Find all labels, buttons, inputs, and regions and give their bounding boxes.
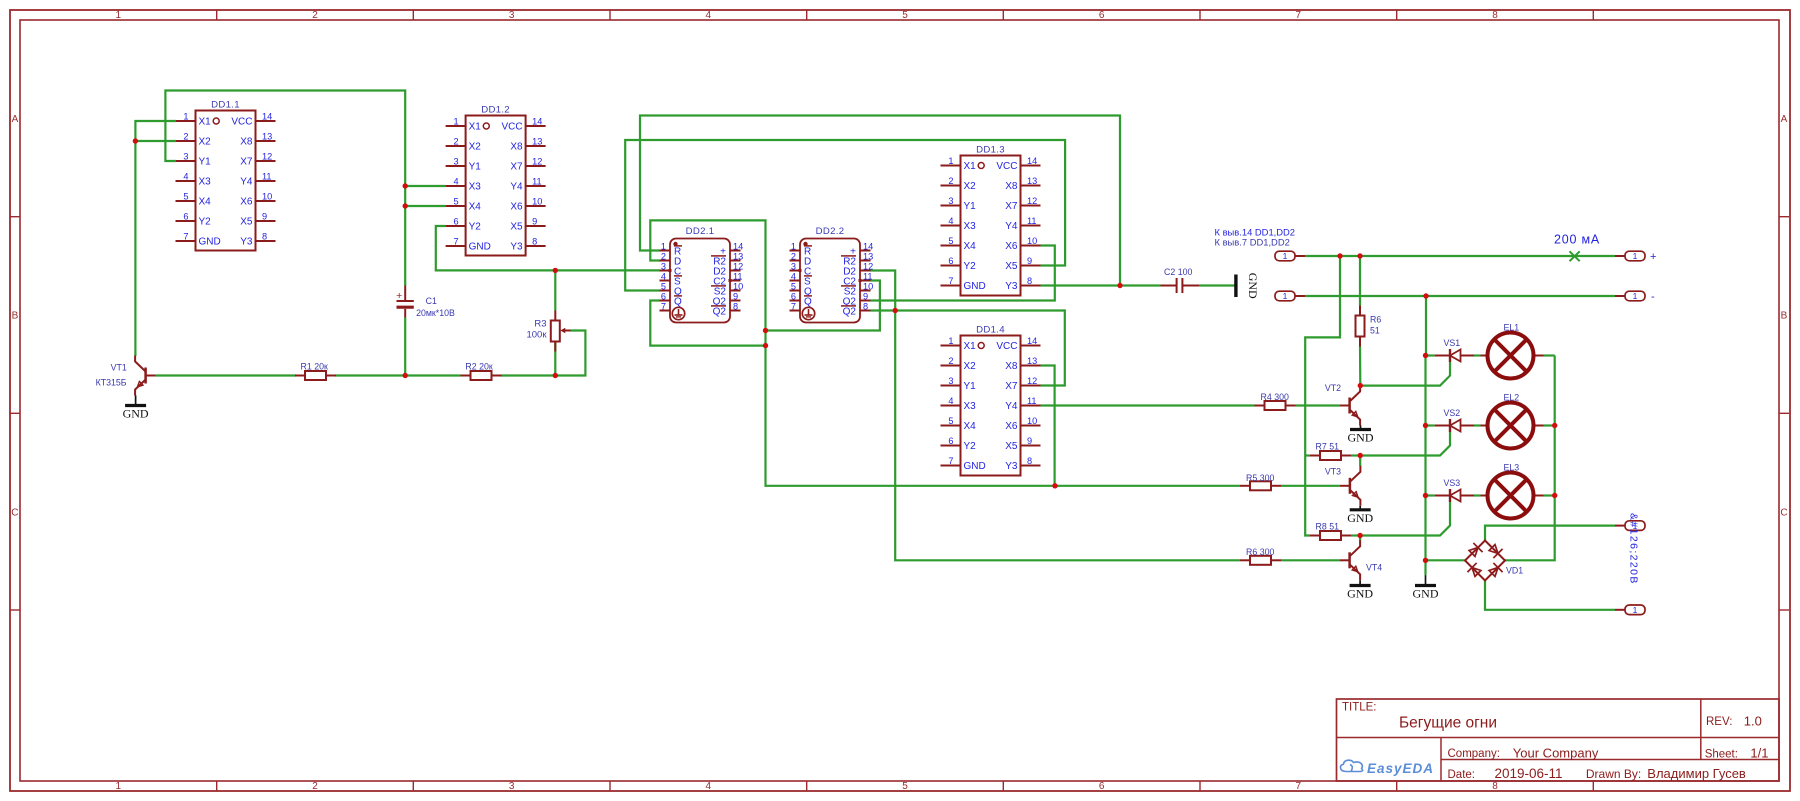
svg-text:VD1: VD1 — [1506, 565, 1523, 575]
junction (1554.7,495.5) — [1552, 493, 1557, 498]
svg-text:GND: GND — [1347, 511, 1373, 525]
wire DD1.4 pin13 to net — [1041, 366, 1055, 486]
svg-text:КТ315Б: КТ315Б — [96, 378, 127, 388]
svg-text:C: C — [1780, 507, 1787, 518]
svg-text:GND: GND — [964, 281, 986, 292]
svg-text:Y3: Y3 — [240, 237, 253, 248]
svg-text:Владимир Гусев: Владимир Гусев — [1647, 766, 1746, 781]
svg-text:X4: X4 — [964, 241, 977, 252]
svg-text:5: 5 — [902, 781, 908, 792]
svg-text:7: 7 — [791, 302, 796, 312]
svg-text:X3: X3 — [964, 401, 977, 412]
svg-text:6: 6 — [1099, 10, 1105, 21]
svg-text:13: 13 — [1027, 356, 1037, 366]
wire VT3 collector stub — [1359, 456, 1361, 467]
svg-text:Y1: Y1 — [199, 157, 212, 168]
svg-text:R8 51: R8 51 — [1316, 522, 1340, 532]
wire R7 tap — [1305, 454, 1310, 456]
wire R4 to VT2 base — [1296, 404, 1340, 406]
svg-text:R3: R3 — [534, 319, 546, 330]
svg-text:7: 7 — [1296, 10, 1302, 21]
svg-text:4: 4 — [791, 272, 796, 282]
wire DD1.1 pin3 to C1 top — [165, 91, 405, 286]
IC DD2.1 — [660, 226, 744, 323]
svg-text:R7 51: R7 51 — [1316, 442, 1340, 452]
svg-text:X1: X1 — [199, 117, 212, 128]
wire DD2.2 pin9 to DD1.3 pin10 — [871, 246, 1055, 301]
wire bridge left — [1426, 559, 1466, 561]
svg-text:Q: Q — [804, 297, 812, 308]
svg-text:-: - — [1651, 291, 1655, 303]
svg-text:A: A — [12, 114, 19, 125]
wire DD1.1 pin2 to node — [135, 140, 176, 142]
junction (405.2,186) — [403, 183, 408, 188]
svg-text:Drawn By:: Drawn By: — [1586, 767, 1641, 781]
svg-text:14: 14 — [863, 242, 873, 252]
lamp EL2 — [1481, 393, 1544, 449]
svg-text:VCC: VCC — [996, 341, 1017, 352]
svg-text:GND: GND — [469, 242, 491, 253]
svg-text:200 мА: 200 мА — [1554, 233, 1600, 247]
svg-text:14: 14 — [1027, 156, 1037, 166]
svg-text:4: 4 — [948, 216, 953, 226]
svg-text:Y3: Y3 — [1005, 461, 1018, 472]
svg-text:13: 13 — [733, 252, 743, 262]
junction (765.5,330.5) — [763, 328, 768, 333]
svg-text:X2: X2 — [469, 142, 482, 153]
svg-text:1: 1 — [1283, 291, 1288, 301]
svg-text:DD1.2: DD1.2 — [481, 105, 510, 116]
svg-text:X4: X4 — [964, 421, 977, 432]
svg-text:X5: X5 — [240, 217, 253, 228]
wire VT1 base to R1 — [156, 374, 296, 376]
resistor R7 51 — [1310, 442, 1351, 460]
svg-text:Y3: Y3 — [510, 242, 523, 253]
junction (1425.5,355.5) — [1423, 353, 1428, 358]
svg-text:1: 1 — [1283, 251, 1288, 261]
svg-text:1: 1 — [661, 242, 666, 252]
svg-text:DD1.3: DD1.3 — [976, 145, 1005, 156]
junction (1360,256) — [1357, 253, 1362, 258]
wire VS-EL row 425.5 — [1474, 424, 1481, 426]
svg-text:4: 4 — [453, 177, 458, 187]
svg-text:X3: X3 — [469, 182, 482, 193]
svg-text:20мк*10В: 20мк*10В — [416, 308, 455, 318]
svg-text:9: 9 — [1027, 436, 1032, 446]
svg-text:7: 7 — [183, 232, 188, 242]
capacitor C1 — [396, 286, 455, 318]
svg-text:10: 10 — [1027, 416, 1037, 426]
svg-text:GND: GND — [123, 407, 149, 421]
svg-text:DD1.1: DD1.1 — [211, 100, 240, 111]
svg-text:4: 4 — [183, 172, 188, 182]
svg-text:EasyEDA: EasyEDA — [1367, 761, 1434, 776]
IC DD1.1 — [176, 100, 276, 251]
svg-text:4: 4 — [948, 396, 953, 406]
svg-text:13: 13 — [262, 132, 272, 142]
svg-text:+: + — [1650, 251, 1656, 263]
svg-text:13: 13 — [863, 252, 873, 262]
svg-text:3: 3 — [791, 262, 796, 272]
svg-text:Y2: Y2 — [199, 217, 212, 228]
svg-text:2: 2 — [948, 356, 953, 366]
svg-text:14: 14 — [532, 117, 542, 127]
svg-text:DD2.2: DD2.2 — [816, 226, 845, 237]
wire EL-bus row 425.5 — [1544, 424, 1555, 426]
svg-text:X5: X5 — [510, 222, 523, 233]
svg-text:12: 12 — [532, 157, 542, 167]
svg-text:6: 6 — [453, 217, 458, 227]
connector pad P3 + right — [1615, 251, 1645, 261]
current probe X — [1570, 251, 1580, 261]
title block — [1337, 699, 1780, 781]
svg-text:X8: X8 — [1005, 181, 1018, 192]
IC DD1.3 — [941, 145, 1041, 296]
thyristor VS2 — [1435, 408, 1474, 432]
svg-text:8: 8 — [733, 302, 738, 312]
junction (1360.2,455.5) — [1358, 453, 1363, 458]
svg-text:Y4: Y4 — [1005, 221, 1018, 232]
svg-text:REV:: REV: — [1706, 716, 1732, 728]
svg-text:EL2: EL2 — [1504, 393, 1520, 403]
svg-text:A: A — [1781, 114, 1788, 125]
wire bridge bottom to pad — [1485, 581, 1615, 610]
svg-text:3: 3 — [948, 196, 953, 206]
svg-text:VCC: VCC — [996, 161, 1017, 172]
wire VT4 collector stub — [1359, 536, 1361, 541]
svg-text:R5 300: R5 300 — [1246, 473, 1274, 483]
svg-text:R1 20к: R1 20к — [301, 361, 328, 371]
lamp EL3 — [1481, 463, 1544, 519]
svg-text:X7: X7 — [510, 162, 523, 173]
svg-text:1: 1 — [116, 781, 122, 792]
svg-text:К выв.7 DD1,DD2: К выв.7 DD1,DD2 — [1215, 236, 1290, 247]
junction (1425.5,560.3) — [1423, 558, 1428, 563]
svg-text:VCC: VCC — [501, 122, 522, 133]
svg-text:DD1.4: DD1.4 — [976, 325, 1005, 336]
junction (1426,296) — [1423, 293, 1428, 298]
svg-text:VS2: VS2 — [1444, 408, 1461, 418]
svg-text:3: 3 — [661, 262, 666, 272]
svg-text:Q: Q — [674, 297, 682, 308]
junction (1055,485.8) — [1052, 483, 1057, 488]
svg-text:6: 6 — [661, 292, 666, 302]
svg-text:7: 7 — [661, 302, 666, 312]
svg-text:11: 11 — [1027, 216, 1037, 226]
svg-text:10: 10 — [262, 192, 272, 202]
svg-text:1.0: 1.0 — [1744, 714, 1762, 729]
svg-text:X7: X7 — [1005, 201, 1018, 212]
svg-text:X5: X5 — [1005, 261, 1018, 272]
svg-text:11: 11 — [1027, 396, 1037, 406]
svg-text:6: 6 — [948, 256, 953, 266]
svg-text:3: 3 — [453, 157, 458, 167]
svg-text:X3: X3 — [199, 177, 212, 188]
thyristor VS1 — [1435, 338, 1474, 362]
wire VS row 355.5 — [1426, 354, 1435, 356]
svg-text:C: C — [11, 507, 18, 518]
svg-text:5: 5 — [948, 416, 953, 426]
junction (1425.5,425.5) — [1423, 423, 1428, 428]
svg-text:Y1: Y1 — [469, 162, 482, 173]
svg-text:9: 9 — [532, 217, 537, 227]
junction (1360.3,385.6) — [1358, 383, 1363, 388]
svg-text:1: 1 — [1633, 251, 1638, 261]
svg-text:51: 51 — [1370, 325, 1380, 335]
svg-text:EL3: EL3 — [1504, 463, 1520, 473]
svg-text:5: 5 — [791, 282, 796, 292]
svg-text:5: 5 — [902, 10, 908, 21]
svg-text:8: 8 — [1027, 456, 1032, 466]
svg-text:C2 100: C2 100 — [1164, 267, 1192, 277]
ground VT2 — [1348, 426, 1374, 445]
svg-text:X8: X8 — [240, 137, 253, 148]
svg-text:7: 7 — [948, 276, 953, 286]
svg-text:Y4: Y4 — [1005, 401, 1018, 412]
svg-text:X5: X5 — [1005, 441, 1018, 452]
junction (405.2,375.5) — [403, 373, 408, 378]
svg-text:1: 1 — [1633, 291, 1638, 301]
svg-text:9: 9 — [1027, 256, 1032, 266]
wire R6 51 to VT2 collector — [1359, 346, 1362, 386]
resistor R6 300 — [1240, 547, 1281, 565]
junction (895.2,310.5) — [893, 308, 898, 313]
svg-text:Q2: Q2 — [713, 307, 727, 318]
IC DD2.2 — [790, 226, 874, 323]
svg-text:R4 300: R4 300 — [1261, 392, 1289, 402]
svg-text:R2 20к: R2 20к — [465, 361, 492, 371]
svg-text:7: 7 — [1296, 781, 1302, 792]
junction (1340,256) — [1337, 253, 1342, 258]
junction (1360.1,535.5) — [1357, 533, 1362, 538]
svg-text:GND: GND — [1347, 587, 1373, 601]
connector pad P1 + left — [1275, 251, 1305, 261]
svg-text:Y2: Y2 — [469, 222, 482, 233]
wire R5 to VT3 base — [1281, 485, 1340, 487]
svg-text:Your Company: Your Company — [1513, 745, 1599, 760]
resistor R1 — [295, 361, 336, 380]
svg-text:2: 2 — [661, 252, 666, 262]
svg-text:1: 1 — [948, 156, 953, 166]
junction (555.3,270.4) — [553, 268, 558, 273]
svg-text:GND: GND — [964, 461, 986, 472]
wire DD2.1 pin1 net — [640, 116, 1120, 286]
lamp EL1 — [1481, 323, 1544, 379]
wire VS3 gate — [1360, 502, 1450, 536]
wire node to DD1.2 pin4 — [405, 185, 445, 187]
resistor R3 (rheostat) — [526, 311, 570, 352]
wire VS row 425.5 — [1426, 424, 1435, 426]
svg-text:1: 1 — [453, 117, 458, 127]
resistor R6 51 — [1356, 306, 1382, 347]
svg-text:3: 3 — [509, 10, 515, 21]
svg-text:3: 3 — [948, 376, 953, 386]
svg-text:4: 4 — [706, 10, 712, 21]
wire DD2.2 pin11 to loop — [766, 281, 880, 331]
svg-text:Q2: Q2 — [843, 307, 857, 318]
svg-text:B: B — [1781, 311, 1788, 322]
junction (1120,285.5) — [1117, 283, 1122, 288]
connector pad P2 - left — [1275, 291, 1305, 301]
svg-text:X2: X2 — [964, 361, 977, 372]
svg-text:X6: X6 — [240, 197, 253, 208]
svg-text:Sheet:: Sheet: — [1705, 749, 1738, 761]
junction (135.4,141) — [133, 138, 138, 143]
svg-text:DD2.1: DD2.1 — [686, 226, 715, 237]
connector pad P5 AC top — [1615, 521, 1645, 531]
wire DD1.3 pin8 to C2 — [1041, 284, 1161, 286]
svg-text:8: 8 — [1492, 781, 1498, 792]
junction (1425.5,495.5) — [1423, 493, 1428, 498]
svg-text:6: 6 — [1099, 781, 1105, 792]
svg-text:TITLE:: TITLE: — [1342, 702, 1377, 714]
svg-text:Бегущие огни: Бегущие огни — [1399, 714, 1497, 731]
svg-text:VCC: VCC — [231, 117, 252, 128]
svg-text:Date:: Date: — [1448, 769, 1476, 781]
svg-text:VT1: VT1 — [111, 363, 127, 373]
svg-text:8: 8 — [1027, 276, 1032, 286]
svg-text:Y1: Y1 — [964, 201, 977, 212]
ground VT4 — [1347, 580, 1373, 600]
wire R7 to VT3 collector node — [1351, 454, 1360, 456]
IC DD1.4 — [941, 325, 1041, 476]
svg-text:R6 300: R6 300 — [1246, 547, 1274, 557]
transistor VT3 — [1325, 466, 1361, 506]
wire VS1 gate — [1360, 362, 1450, 386]
wire R2 to node — [501, 374, 556, 376]
svg-text:5: 5 — [453, 197, 458, 207]
svg-text:&#126;220В: &#126;220В — [1628, 513, 1640, 585]
wire node to DD1.2 pin5 — [405, 205, 445, 207]
svg-text:EL1: EL1 — [1504, 323, 1520, 333]
svg-text:3: 3 — [509, 781, 515, 792]
svg-text:10: 10 — [863, 282, 873, 292]
wire DD2.2 pin12 to R6 300 — [871, 271, 1241, 561]
svg-text:6: 6 — [183, 212, 188, 222]
wire EL-bus row 355.5 — [1544, 354, 1555, 356]
ground near VD1 — [1413, 575, 1439, 601]
wire DD2.2 pin8 to DD1.4 pin12 — [871, 311, 1065, 386]
svg-text:8: 8 — [863, 302, 868, 312]
wire C2 to GND — [1199, 284, 1236, 286]
svg-text:6: 6 — [791, 292, 796, 302]
svg-text:5: 5 — [183, 192, 188, 202]
wire VS row 495.5 — [1426, 494, 1435, 496]
svg-text:8: 8 — [262, 232, 267, 242]
svg-text:VS3: VS3 — [1444, 478, 1461, 488]
svg-text:2: 2 — [791, 252, 796, 262]
wire DD2.1 pin5 to DD1.3 pin9 — [625, 140, 1065, 291]
capacitor C2 — [1161, 267, 1200, 293]
svg-text:Y3: Y3 — [1005, 281, 1018, 292]
svg-text:14: 14 — [262, 112, 272, 122]
svg-text:1: 1 — [1633, 605, 1638, 615]
ground VT1 — [123, 396, 149, 421]
junction (1554.7,425.5) — [1552, 423, 1557, 428]
svg-text:12: 12 — [262, 152, 272, 162]
wire DD1.4 pin11 to R4 — [1041, 404, 1255, 406]
svg-text:4: 4 — [706, 781, 712, 792]
wire minus to thyristor cathodes — [1424, 296, 1427, 575]
svg-text:Y4: Y4 — [240, 177, 253, 188]
svg-text:X6: X6 — [1005, 241, 1018, 252]
svg-text:VT4: VT4 — [1366, 563, 1382, 573]
junction (765.5,345.6) — [763, 343, 768, 348]
wire DD2.1 pin6 to loop — [650, 301, 765, 346]
svg-text:9: 9 — [733, 292, 738, 302]
svg-text:GND: GND — [1413, 587, 1439, 601]
svg-text:1: 1 — [948, 336, 953, 346]
svg-text:X8: X8 — [1005, 361, 1018, 372]
svg-text:B: B — [12, 311, 19, 322]
svg-text:3: 3 — [183, 152, 188, 162]
svg-text:100к: 100к — [526, 329, 547, 340]
svg-text:VT2: VT2 — [1325, 383, 1341, 393]
diode bridge VD1 — [1465, 541, 1523, 581]
svg-text:9: 9 — [863, 292, 868, 302]
svg-text:1: 1 — [116, 10, 122, 21]
wire VS-EL row 355.5 — [1474, 354, 1481, 356]
svg-text:5: 5 — [948, 236, 953, 246]
svg-text:2: 2 — [312, 781, 318, 792]
svg-text:10: 10 — [532, 197, 542, 207]
svg-text:2: 2 — [453, 137, 458, 147]
thyristor VS3 — [1435, 478, 1474, 502]
svg-text:2: 2 — [948, 176, 953, 186]
wire minus rail — [1305, 295, 1615, 297]
svg-text:X1: X1 — [469, 122, 482, 133]
svg-text:1/1: 1/1 — [1750, 746, 1768, 761]
svg-text:X2: X2 — [964, 181, 977, 192]
svg-text:14: 14 — [733, 242, 743, 252]
svg-text:X7: X7 — [1005, 381, 1018, 392]
wire node to R6 51 — [1359, 256, 1361, 306]
wire R8 to VT4 collector node — [1351, 534, 1360, 536]
connector pad P4 - right — [1615, 291, 1645, 301]
svg-text:7: 7 — [948, 456, 953, 466]
wire R1 to R2 — [335, 374, 461, 376]
svg-text:X3: X3 — [964, 221, 977, 232]
resistor R5 300 — [1240, 473, 1281, 491]
svg-text:Y1: Y1 — [964, 381, 977, 392]
svg-text:X1: X1 — [964, 341, 977, 352]
svg-text:1: 1 — [791, 242, 796, 252]
svg-text:+: + — [396, 290, 402, 302]
wire DD1.2 pin6 to DD2.1 pin3 — [436, 226, 660, 270]
svg-text:VT3: VT3 — [1325, 467, 1341, 477]
svg-text:GND: GND — [199, 237, 221, 248]
svg-text:5: 5 — [661, 282, 666, 292]
svg-text:8: 8 — [532, 237, 537, 247]
svg-text:Company:: Company: — [1448, 748, 1500, 760]
svg-text:X6: X6 — [510, 202, 523, 213]
IC DD1.2 — [446, 105, 546, 256]
wire plus rail — [1305, 255, 1615, 257]
svg-text:11: 11 — [733, 272, 743, 282]
svg-text:9: 9 — [262, 212, 267, 222]
resistor R4 300 — [1255, 392, 1296, 410]
svg-text:11: 11 — [262, 172, 272, 182]
wire VS2 gate — [1360, 432, 1450, 456]
ground VT3 — [1347, 506, 1373, 525]
svg-text:X8: X8 — [510, 142, 523, 153]
svg-text:Y4: Y4 — [510, 182, 523, 193]
svg-text:1: 1 — [183, 112, 188, 122]
svg-text:X4: X4 — [199, 197, 212, 208]
svg-text:6: 6 — [948, 436, 953, 446]
svg-text:GND: GND — [1348, 431, 1374, 445]
wire R3 wiper to net — [555, 331, 585, 376]
